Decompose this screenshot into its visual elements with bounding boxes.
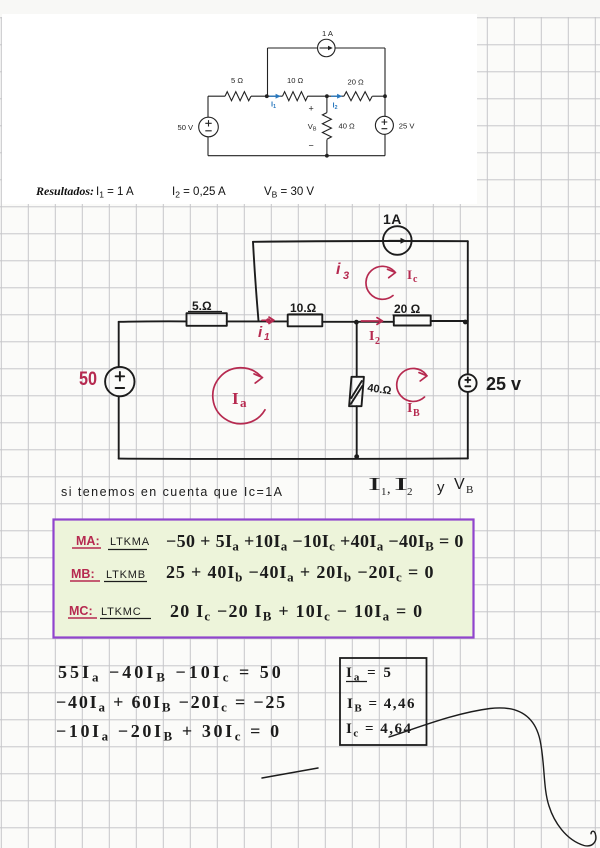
svg-text:10 Ω: 10 Ω <box>287 76 304 85</box>
svg-text:20 Ω: 20 Ω <box>394 302 421 316</box>
svg-text:50 V: 50 V <box>178 123 195 132</box>
svg-text:−40Ia + 60IB −20Ic = −25: −40Ia + 60IB −20Ic = −25 <box>56 692 287 715</box>
svg-text:1A: 1A <box>383 211 402 227</box>
svg-text:LTKMC: LTKMC <box>101 606 141 618</box>
svg-text:25 + 40Ib −40Ia + 20Ib −20Ic =: 25 + 40Ib −40Ia + 20Ib −20Ic = 0 <box>166 562 434 585</box>
svg-text:B: B <box>466 484 473 496</box>
svg-text:I: I <box>369 329 374 344</box>
svg-text:I: I <box>394 474 408 494</box>
svg-text:I: I <box>407 401 412 416</box>
svg-text:MA:: MA: <box>76 534 100 548</box>
svg-text:si tenemos en cuenta que Ic=1A: si tenemos en cuenta que Ic=1A <box>61 485 283 499</box>
svg-text:50: 50 <box>79 369 97 390</box>
svg-text:c: c <box>413 274 418 285</box>
svg-text:V: V <box>454 476 465 493</box>
svg-text:−50 + 5Ia +10Ia −10Ic +40Ia −4: −50 + 5Ia +10Ia −10Ic +40Ia −40IB = 0 <box>166 531 464 554</box>
svg-text:1: 1 <box>381 486 387 498</box>
svg-text:40 Ω: 40 Ω <box>339 121 356 130</box>
svg-text:B: B <box>413 408 420 419</box>
svg-text:2: 2 <box>375 336 380 347</box>
svg-text:i: i <box>258 324 263 341</box>
svg-text:I2: I2 <box>333 101 338 111</box>
svg-text:55Ia −40IB −10Ic = 50: 55Ia −40IB −10Ic = 50 <box>58 662 284 685</box>
svg-text:20 Ω: 20 Ω <box>348 78 365 87</box>
svg-text:I: I <box>407 267 412 282</box>
svg-text:a: a <box>240 395 247 410</box>
svg-text:y: y <box>437 479 445 496</box>
svg-text:10.Ω: 10.Ω <box>290 301 317 315</box>
svg-text:3: 3 <box>343 270 349 282</box>
svg-text:−: − <box>309 141 314 151</box>
svg-text:IB = 4,46: IB = 4,46 <box>347 696 416 715</box>
svg-text:VB = 30 V: VB = 30 V <box>264 186 314 200</box>
svg-text:I1: I1 <box>271 100 276 110</box>
svg-text:I: I <box>368 474 381 494</box>
svg-text:I2 = 0,25 A: I2 = 0,25 A <box>172 186 226 200</box>
svg-text:MC:: MC: <box>69 604 93 618</box>
svg-text:−10Ia −20IB + 30Ic = 0: −10Ia −20IB + 30Ic = 0 <box>56 721 282 744</box>
svg-text:,: , <box>387 482 391 497</box>
svg-text:LTKMA: LTKMA <box>110 536 150 548</box>
svg-text:5 Ω: 5 Ω <box>231 76 243 85</box>
svg-text:1 A: 1 A <box>322 29 334 38</box>
svg-text:25 v: 25 v <box>486 374 521 394</box>
svg-text:40.Ω: 40.Ω <box>367 382 393 397</box>
svg-text:VB: VB <box>308 122 317 133</box>
svg-text:Ia = 5: Ia = 5 <box>346 665 393 684</box>
svg-text:+: + <box>309 103 314 113</box>
svg-text:LTKMB: LTKMB <box>106 569 146 581</box>
svg-text:25 V: 25 V <box>399 122 416 131</box>
svg-text:I: I <box>232 389 239 408</box>
svg-text:Resultados:: Resultados: <box>35 184 94 198</box>
svg-text:i: i <box>336 261 341 278</box>
svg-text:I1 = 1 A: I1 = 1 A <box>96 186 134 200</box>
svg-text:Ic = 4,64: Ic = 4,64 <box>346 721 413 740</box>
svg-text:1: 1 <box>264 332 270 343</box>
svg-text:MB:: MB: <box>71 567 95 581</box>
svg-text:2: 2 <box>407 486 413 498</box>
